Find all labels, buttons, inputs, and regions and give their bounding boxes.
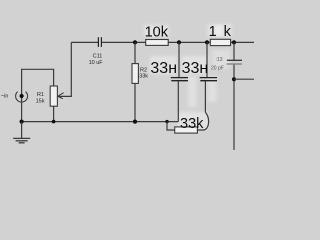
wire: R1 bottom lead: [53, 106, 55, 121]
svg-text:15k: 15k: [36, 98, 45, 104]
resistor 1k body: [210, 39, 230, 45]
potentiometer wiper arrow of R1: [58, 42, 71, 96]
input jack circle: [16, 92, 28, 102]
input jack center dot: [20, 94, 24, 98]
wire: from C13 bottom node to right edge: [234, 78, 254, 80]
svg-text:R1: R1: [37, 92, 44, 98]
wire: vertical through input jack down to ground rail: [21, 90, 23, 122]
capacitor C2 plates: [200, 77, 217, 79]
node dot at C13 bottom: [232, 77, 236, 81]
svg-text:33k: 33k: [139, 73, 148, 79]
svg-text::13: :13: [216, 57, 223, 63]
node dot at R2 top: [133, 40, 137, 44]
capacitor C1 bottom lead: [177, 81, 179, 121]
capacitor C2 33n top lead: [206, 42, 208, 77]
svg-text:1: 1: [209, 24, 217, 40]
erase smudge behind bottom 33k label: [178, 112, 208, 129]
wire: top rail from C11 to 10k: [102, 41, 146, 43]
erase smudge behind 10k label: [144, 25, 169, 37]
erase smudge bar below capacitor C1: [188, 76, 197, 107]
resistor 10k body: [146, 40, 169, 46]
svg-text:20 pF: 20 pF: [211, 65, 224, 71]
capacitor C13 plates: [227, 59, 242, 61]
node dot at R2 bottom: [133, 120, 137, 124]
ground symbol: [21, 122, 23, 139]
wire: bottom ground rail: [22, 121, 179, 123]
node dot at 20pF top: [232, 40, 236, 44]
capacitor C13 20pF top lead: [233, 42, 235, 60]
erase smudge behind first 33n label: [150, 56, 177, 74]
capacitor C13 bottom lead: [233, 65, 235, 150]
node dot left of 1k: [205, 40, 209, 44]
node dot at 33k branch: [165, 120, 168, 123]
svg-text:~in: ~in: [1, 94, 9, 100]
wire: top rail right of 1k to edge: [231, 41, 254, 43]
resistor R2 body: [132, 64, 138, 84]
node dot at R1 bottom: [52, 120, 56, 124]
node dot right of 10k: [177, 40, 181, 44]
wire: R2 bottom lead: [134, 83, 136, 121]
svg-text:33н: 33н: [150, 60, 177, 77]
svg-text:33k: 33k: [180, 116, 204, 132]
erase smudge behind C13 20pF label: [212, 50, 230, 69]
svg-text:10 uF: 10 uF: [89, 60, 104, 66]
erase smudge behind second 33n label: [182, 56, 208, 74]
capacitor C1 plates: [171, 77, 188, 79]
capacitor C1 33n top lead: [178, 42, 180, 77]
resistor 33k bottom body: [175, 127, 198, 133]
erase smudge bar below capacitor C2: [208, 76, 217, 102]
wire: 33k right lead with curved riser to C2: [197, 112, 208, 130]
capacitor C2 bottom lead: [204, 81, 206, 112]
wire: top rail between 10k and 1k: [168, 41, 210, 43]
svg-text:33н: 33н: [182, 60, 209, 77]
svg-text:10k: 10k: [145, 24, 169, 40]
erase smudge behind 1 k label: [207, 24, 232, 37]
resistor R1 body: [50, 86, 57, 106]
capacitor C11 plates: [97, 37, 99, 47]
svg-text:C11: C11: [93, 53, 103, 59]
resistor R2 top lead: [134, 42, 136, 63]
wire: 33k bottom resistor left lead: [167, 122, 175, 130]
svg-text:k: k: [224, 24, 232, 40]
wire: input top L from source up and over to R1: [22, 69, 54, 90]
node dot at input/ground junction: [20, 120, 24, 124]
wire: top rail left segment to C11: [71, 41, 98, 43]
